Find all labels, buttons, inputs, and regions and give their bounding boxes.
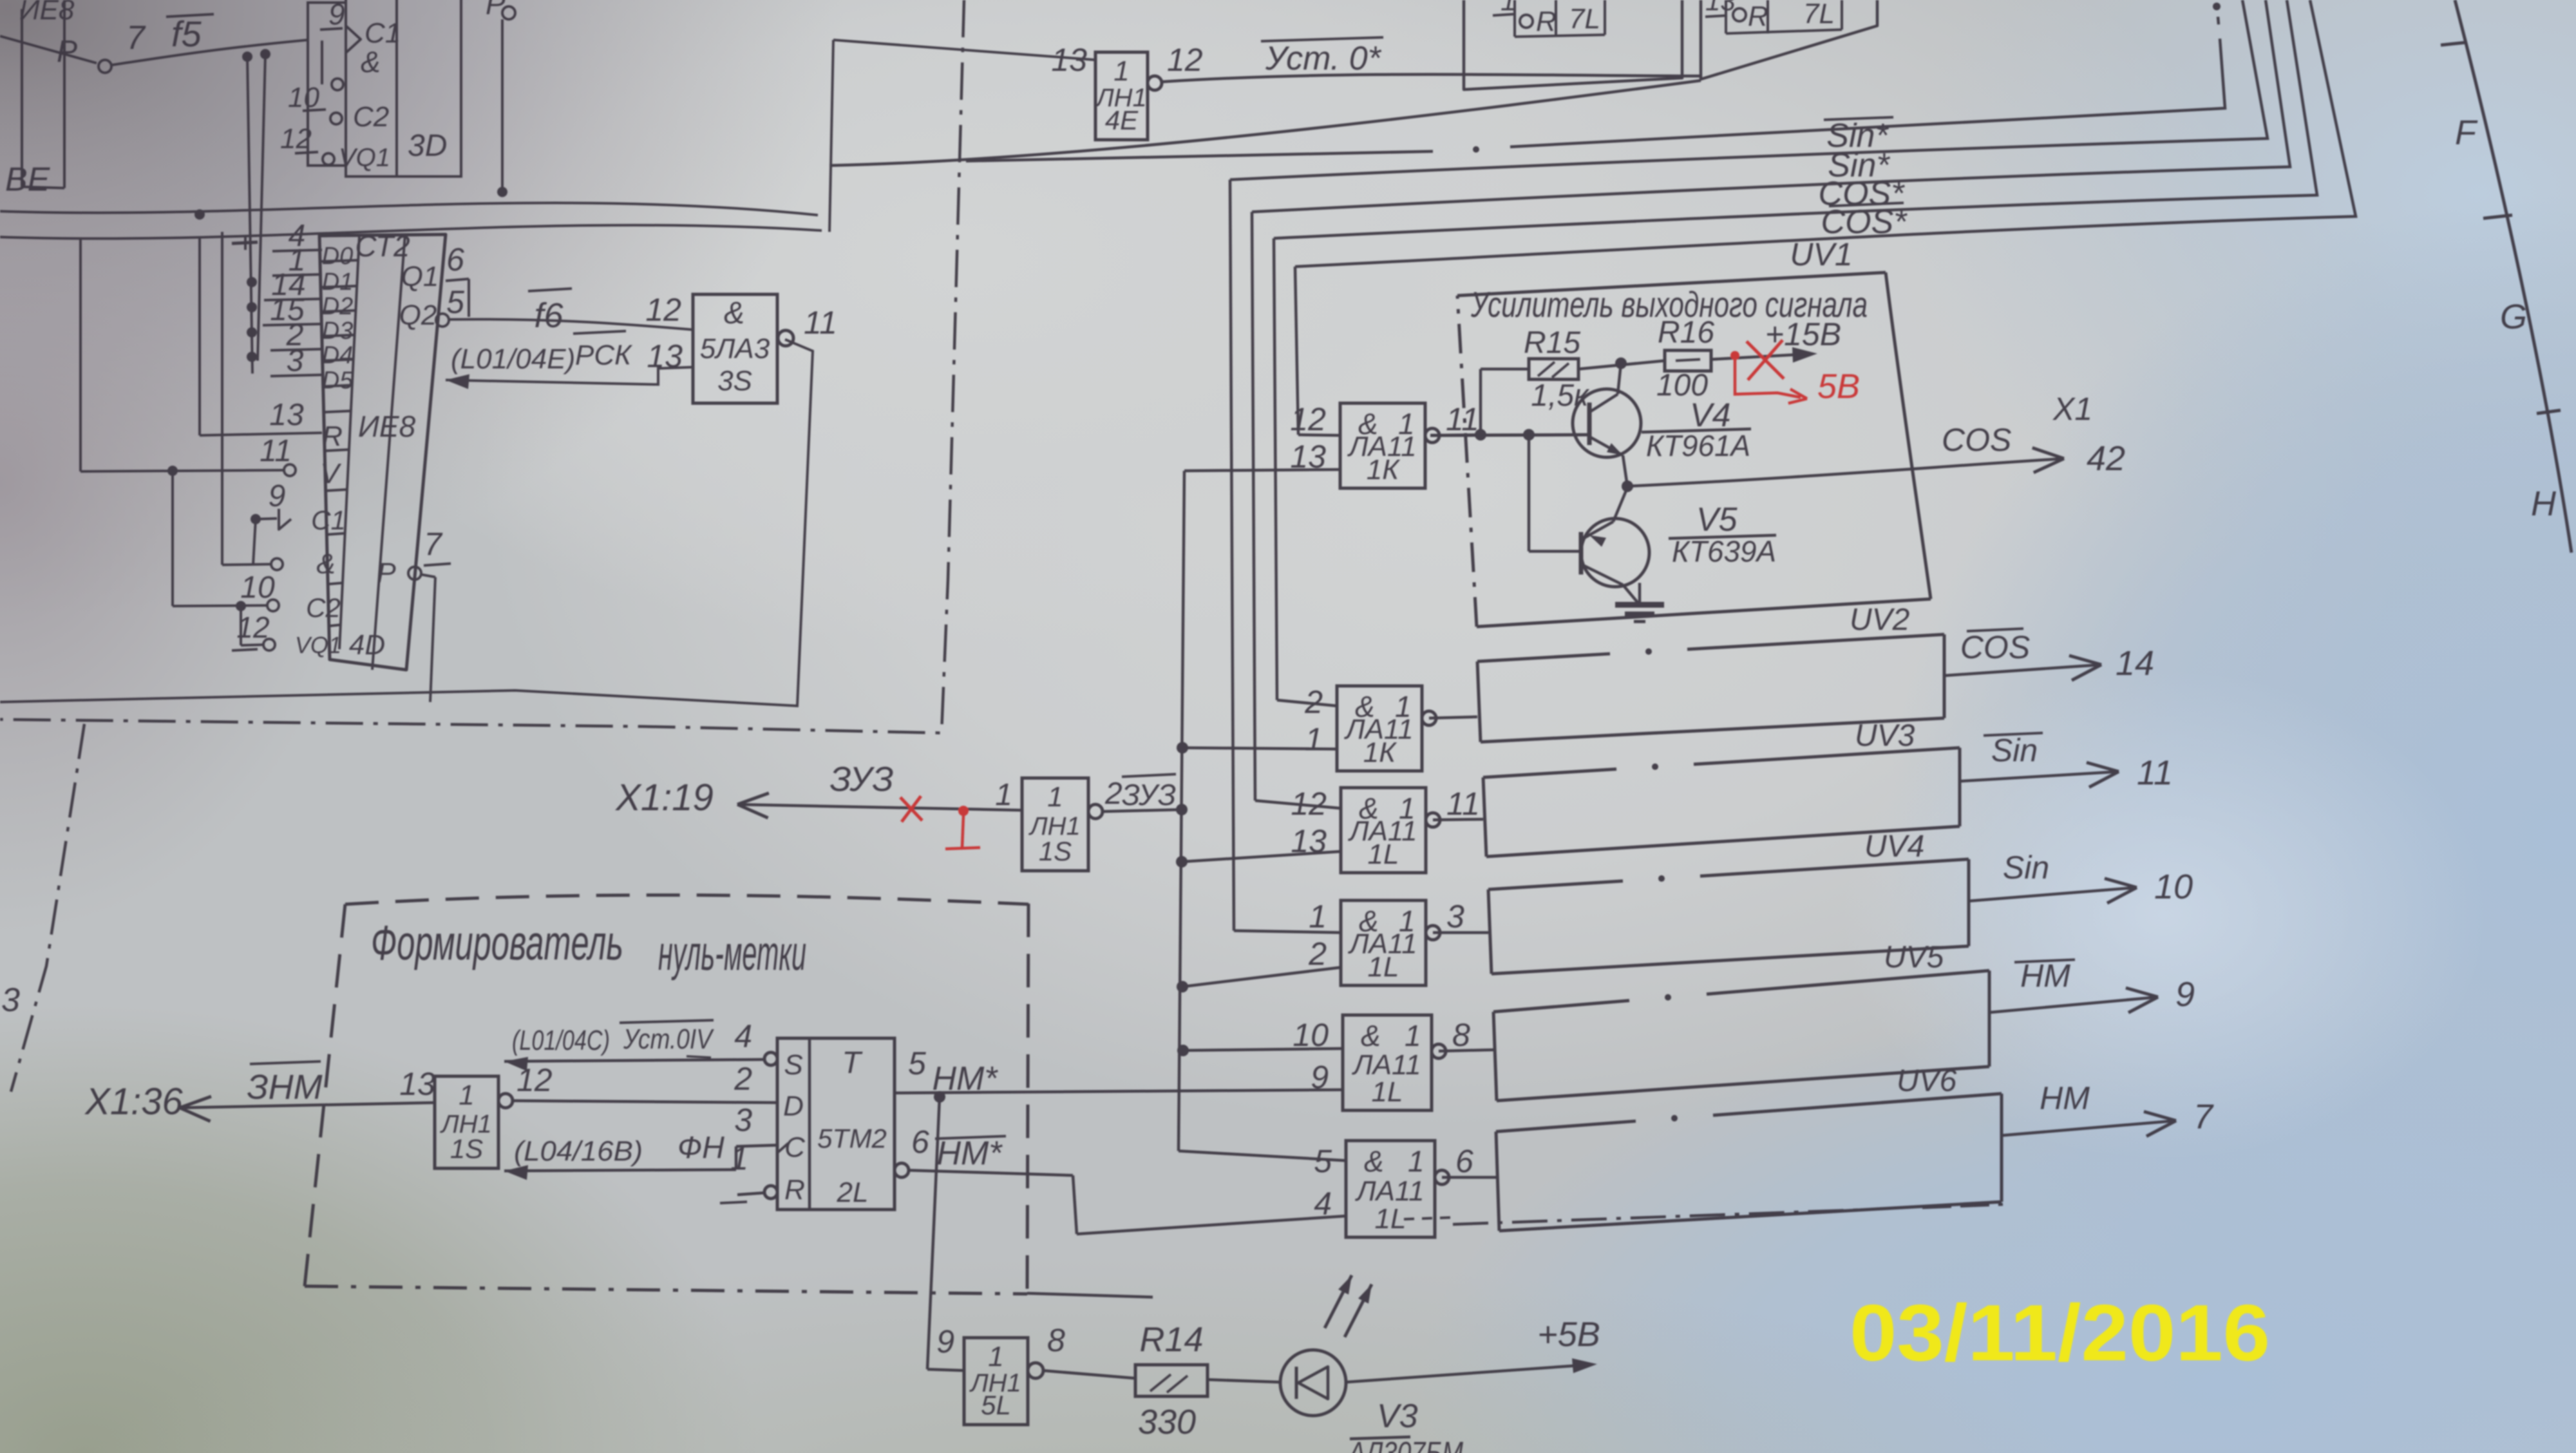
svg-text:VQ1: VQ1: [295, 632, 341, 658]
svg-text:2L: 2L: [837, 1177, 869, 1208]
svg-text:VQ1: VQ1: [339, 144, 390, 172]
svg-text:8: 8: [1047, 1322, 1065, 1358]
svg-text:АЛ307БМ: АЛ307БМ: [1347, 1436, 1463, 1453]
svg-text:5: 5: [908, 1045, 926, 1081]
svg-text:V3: V3: [1377, 1398, 1418, 1435]
svg-text:С1: С1: [311, 505, 346, 535]
svg-text:R: R: [322, 421, 343, 452]
svg-text:&: &: [1361, 1019, 1381, 1052]
svg-text:UV6: UV6: [1897, 1064, 1957, 1098]
svg-text:X1: X1: [2052, 391, 2092, 427]
svg-text:3: 3: [287, 344, 304, 378]
svg-text:H: H: [2531, 484, 2557, 523]
svg-text:7: 7: [126, 19, 146, 57]
svg-text:4: 4: [734, 1018, 752, 1054]
svg-text:8: 8: [1452, 1017, 1470, 1053]
svg-text:5В: 5В: [1817, 367, 1860, 406]
svg-text:5: 5: [446, 284, 464, 320]
svg-text:f6: f6: [534, 296, 563, 335]
svg-text:4Е: 4Е: [1105, 105, 1139, 135]
svg-text:COS*: COS*: [1821, 204, 1908, 241]
svg-text:(L04/16В): (L04/16В): [514, 1135, 643, 1167]
svg-text:6: 6: [911, 1124, 929, 1160]
svg-text:11: 11: [804, 305, 837, 341]
svg-text:9: 9: [2175, 975, 2195, 1014]
svg-text:R: R: [784, 1174, 805, 1206]
svg-text:3S: 3S: [717, 365, 752, 397]
svg-text:6: 6: [446, 242, 464, 278]
svg-text:13: 13: [1051, 42, 1087, 78]
svg-text:1: 1: [1408, 1144, 1425, 1178]
svg-text:НМ: НМ: [2040, 1080, 2090, 1116]
svg-text:СТ2: СТ2: [355, 229, 410, 263]
svg-text:10: 10: [240, 571, 275, 605]
svg-text:4D: 4D: [349, 629, 385, 661]
svg-text:+5В: +5В: [1537, 1315, 1600, 1354]
svg-text:ЗУЗ: ЗУЗ: [830, 760, 894, 799]
svg-text:НМ*: НМ*: [936, 1135, 1003, 1172]
svg-text:ЗУЗ: ЗУЗ: [1122, 778, 1176, 812]
svg-text:C: C: [784, 1132, 806, 1163]
svg-text:14: 14: [2116, 644, 2154, 683]
svg-text:13: 13: [1705, 0, 1736, 16]
svg-text:6: 6: [1455, 1143, 1473, 1179]
svg-text:D2: D2: [322, 293, 354, 320]
svg-text:(L01/04E): (L01/04E): [451, 343, 575, 375]
svg-text:12: 12: [1290, 401, 1326, 437]
svg-text:2: 2: [1308, 936, 1327, 972]
svg-text:D4: D4: [322, 342, 354, 369]
svg-text:7L: 7L: [1803, 0, 1835, 30]
svg-text:Формирователь: Формирователь: [371, 916, 623, 971]
svg-text:13: 13: [399, 1066, 435, 1102]
svg-text:1L: 1L: [1368, 951, 1399, 983]
svg-text:3: 3: [734, 1102, 752, 1138]
svg-text:Уст. 0*: Уст. 0*: [1265, 40, 1382, 77]
svg-text:НМ*: НМ*: [932, 1060, 998, 1097]
svg-text:1: 1: [1309, 898, 1327, 935]
svg-text:2: 2: [1104, 777, 1122, 811]
svg-text:11: 11: [1446, 401, 1479, 437]
svg-text:&: &: [316, 548, 335, 580]
svg-text:COS: COS: [1960, 629, 2030, 665]
svg-text:D5: D5: [322, 367, 354, 394]
svg-text:5ТМ2: 5ТМ2: [817, 1123, 887, 1154]
svg-text:ЛА11: ЛА11: [1354, 1175, 1424, 1207]
svg-text:1L: 1L: [1372, 1076, 1403, 1108]
svg-text:UV2: UV2: [1850, 603, 1909, 637]
svg-text:1S: 1S: [450, 1134, 483, 1164]
svg-text:(L01/04C): (L01/04C): [512, 1025, 610, 1056]
svg-text:КТ961А: КТ961А: [1646, 429, 1750, 462]
svg-text:ЗНМ: ЗНМ: [247, 1068, 322, 1106]
svg-text:P: P: [377, 557, 396, 589]
svg-text:1: 1: [1047, 781, 1063, 813]
svg-text:9: 9: [328, 0, 345, 31]
svg-text:G: G: [2500, 298, 2527, 336]
svg-text:R: R: [1748, 1, 1768, 32]
svg-text:13: 13: [647, 338, 683, 374]
svg-text:3D: 3D: [408, 129, 447, 163]
svg-text:1S: 1S: [1039, 836, 1072, 866]
svg-text:D1: D1: [322, 269, 354, 296]
svg-text:P: P: [57, 35, 77, 69]
svg-text:V5: V5: [1696, 501, 1738, 538]
svg-text:12: 12: [645, 292, 681, 328]
svg-text:R16: R16: [1658, 316, 1714, 350]
svg-text:5: 5: [1314, 1143, 1332, 1179]
svg-text:UV4: UV4: [1864, 830, 1924, 864]
svg-text:3: 3: [1446, 898, 1464, 935]
svg-text:D0: D0: [322, 243, 354, 270]
svg-text:1: 1: [995, 778, 1012, 812]
svg-text:S: S: [784, 1049, 802, 1081]
svg-text:РСК: РСК: [575, 339, 632, 371]
svg-text:1L: 1L: [1368, 839, 1399, 870]
svg-text:R: R: [1536, 6, 1557, 37]
svg-text:1L: 1L: [1375, 1203, 1406, 1235]
svg-text:7: 7: [424, 526, 443, 562]
svg-text:С2: С2: [353, 101, 389, 133]
svg-text:R15: R15: [1524, 326, 1580, 360]
svg-text:03/11/2016: 03/11/2016: [1850, 1289, 2270, 1378]
svg-text:Q1: Q1: [401, 261, 439, 292]
svg-text:7: 7: [2193, 1097, 2214, 1136]
svg-text:10: 10: [288, 82, 319, 113]
svg-text:X1:36: X1:36: [84, 1081, 183, 1123]
svg-text:1К: 1К: [1367, 454, 1400, 486]
svg-text:ИЕ8: ИЕ8: [358, 410, 416, 443]
svg-text:1: 1: [459, 1079, 474, 1111]
svg-text:11: 11: [2137, 754, 2173, 792]
svg-text:UV5: UV5: [1884, 940, 1944, 974]
svg-text:Sin: Sin: [2003, 850, 2049, 886]
svg-text:9: 9: [269, 479, 286, 513]
svg-text:ВЕ: ВЕ: [5, 161, 51, 198]
svg-text:11: 11: [260, 434, 292, 468]
svg-text:D: D: [783, 1090, 804, 1122]
svg-text:1,5к: 1,5к: [1531, 379, 1590, 413]
svg-text:12: 12: [1167, 42, 1203, 78]
svg-text:Sin: Sin: [1991, 732, 2038, 768]
svg-text:13: 13: [269, 398, 304, 432]
svg-text:X1:19: X1:19: [614, 777, 714, 819]
svg-text:1: 1: [988, 1341, 1003, 1372]
svg-text:Q2: Q2: [399, 299, 437, 331]
svg-text:7L: 7L: [1569, 3, 1600, 35]
svg-text:9: 9: [936, 1324, 954, 1360]
svg-text:ИЕ8: ИЕ8: [19, 0, 75, 26]
svg-text:12: 12: [236, 611, 269, 644]
svg-text:UV1: UV1: [1790, 236, 1852, 272]
svg-text:10: 10: [2154, 868, 2193, 906]
svg-text:F: F: [2455, 113, 2478, 152]
svg-text:R14: R14: [1139, 1320, 1203, 1359]
svg-text:С1: С1: [365, 17, 401, 49]
svg-text:ФН: ФН: [677, 1131, 724, 1165]
svg-text:нуль-метки: нуль-метки: [658, 926, 806, 981]
svg-text:D3: D3: [322, 318, 354, 345]
svg-text:1: 1: [1113, 55, 1129, 87]
svg-text:С2: С2: [306, 593, 341, 623]
svg-text:5ЛА3: 5ЛА3: [700, 333, 770, 365]
svg-text:1: 1: [1305, 721, 1323, 757]
svg-text:КТ639А: КТ639А: [1672, 535, 1776, 568]
svg-text:12: 12: [280, 123, 312, 155]
svg-text:11: 11: [1446, 786, 1480, 822]
svg-text:1: 1: [1405, 1019, 1421, 1052]
svg-text:1К: 1К: [1363, 737, 1397, 768]
svg-text:3: 3: [1, 982, 20, 1019]
svg-text:&: &: [724, 296, 744, 330]
svg-text:V: V: [320, 458, 341, 489]
svg-text:&: &: [1364, 1144, 1384, 1178]
svg-text:330: 330: [1138, 1403, 1196, 1441]
svg-text:Т: Т: [842, 1046, 863, 1080]
svg-text:Уст.0IV: Уст.0IV: [623, 1023, 714, 1055]
svg-text:42: 42: [2087, 439, 2125, 478]
svg-text:UV3: UV3: [1855, 719, 1915, 753]
svg-text:НМ: НМ: [2020, 958, 2070, 994]
svg-text:&: &: [361, 45, 381, 79]
svg-text:2: 2: [734, 1061, 752, 1097]
svg-text:5L: 5L: [981, 1390, 1011, 1420]
svg-text:COS: COS: [1942, 422, 2011, 458]
svg-text:f5: f5: [171, 14, 202, 54]
